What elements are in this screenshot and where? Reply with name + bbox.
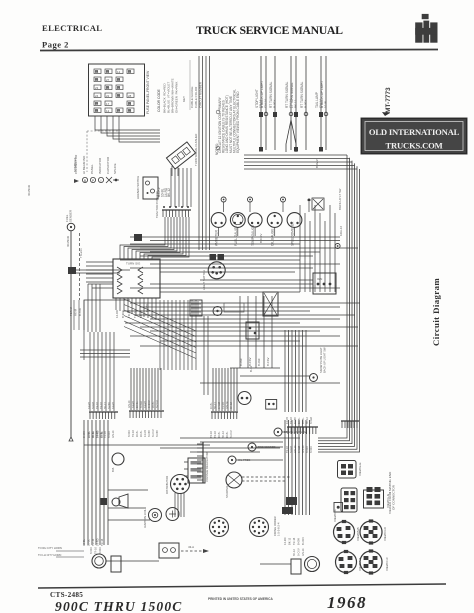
svg-text:43-A: 43-A xyxy=(188,545,194,549)
svg-text:IGNITION COIL: IGNITION COIL xyxy=(143,509,147,528)
svg-text:B-WIZ: B-WIZ xyxy=(218,401,221,409)
svg-text:16-BL: 16-BL xyxy=(152,401,155,408)
svg-text:TURN SIGNAL FLASHER: TURN SIGNAL FLASHER xyxy=(194,134,198,166)
svg-text:KEY: KEY xyxy=(182,96,186,102)
svg-text:14-RD: 14-RD xyxy=(132,401,135,408)
svg-text:BK-12: BK-12 xyxy=(222,430,225,438)
svg-text:17: 17 xyxy=(117,109,121,113)
svg-text:VIEW F-F: VIEW F-F xyxy=(333,509,337,522)
svg-text:10-BL: 10-BL xyxy=(136,401,139,408)
svg-text:18: 18 xyxy=(95,70,99,74)
svg-text:FUEL GAUGE: FUEL GAUGE xyxy=(234,226,238,246)
svg-text:1-5-3-6-2-4: 1-5-3-6-2-4 xyxy=(277,522,281,536)
svg-text:Circuit Diagram: Circuit Diagram xyxy=(431,278,441,346)
svg-text:COLOR CODE: COLOR CODE xyxy=(157,88,161,112)
svg-text:VIEW A-A: VIEW A-A xyxy=(358,558,362,571)
svg-text:30-BRD: 30-BRD xyxy=(27,184,31,196)
svg-text:B-099: B-099 xyxy=(148,430,151,437)
svg-text:BK-12: BK-12 xyxy=(104,401,107,409)
svg-text:TR-16: TR-16 xyxy=(290,416,293,424)
svg-text:TR-16: TR-16 xyxy=(91,538,95,546)
svg-text:16-BL: 16-BL xyxy=(82,539,86,546)
svg-text:18: 18 xyxy=(95,109,99,113)
svg-text:TR-16: TR-16 xyxy=(132,429,135,437)
svg-text:TR-16: TR-16 xyxy=(100,538,104,546)
svg-text:B-CKV: B-CKV xyxy=(152,429,155,437)
svg-text:22: 22 xyxy=(106,94,110,98)
svg-text:OF CONNECTOR: OF CONNECTOR xyxy=(392,484,396,510)
svg-text:BACK-UP LIGHT SW: BACK-UP LIGHT SW xyxy=(323,347,327,373)
svg-text:BK-12: BK-12 xyxy=(167,188,171,197)
svg-text:STARTER: STARTER xyxy=(225,486,229,498)
svg-text:VIEW B-B: VIEW B-B xyxy=(356,527,360,541)
svg-text:OLD INTERNATIONAL: OLD INTERNATIONAL xyxy=(369,127,460,137)
svg-text:BK-12: BK-12 xyxy=(306,416,309,424)
svg-text:HI BEAM IND: HI BEAM IND xyxy=(82,155,86,174)
svg-text:12: 12 xyxy=(106,109,110,113)
svg-text:BK-12: BK-12 xyxy=(293,548,296,556)
svg-text:DISTRIBUTOR: DISTRIBUTOR xyxy=(165,476,169,494)
svg-text:10-BL: 10-BL xyxy=(87,539,91,546)
svg-text:B-099: B-099 xyxy=(297,538,301,545)
svg-text:PANEL: PANEL xyxy=(90,164,94,174)
svg-text:B-WIZ: B-WIZ xyxy=(140,400,143,408)
svg-text:10-BL: 10-BL xyxy=(298,417,301,424)
svg-text:12: 12 xyxy=(117,70,121,74)
svg-text:SPLICE: SPLICE xyxy=(113,163,117,174)
svg-text:900C THRU 1500C: 900C THRU 1500C xyxy=(55,599,183,613)
svg-text:B-90X: B-90X xyxy=(121,310,125,318)
svg-text:B-CKV: B-CKV xyxy=(259,233,263,243)
svg-text:14-RD: 14-RD xyxy=(112,402,115,409)
svg-text:FIRING ORDER: FIRING ORDER xyxy=(273,516,277,536)
svg-text:EQUIPMENT VIEWED FROM CABLE EN: EQUIPMENT VIEWED FROM CABLE END xyxy=(236,91,240,153)
svg-text:16-BL: 16-BL xyxy=(218,431,221,438)
svg-text:GN-14: GN-14 xyxy=(226,401,229,409)
svg-text:B-WIZ: B-WIZ xyxy=(310,416,313,424)
svg-text:B-CKV: B-CKV xyxy=(230,430,233,438)
svg-text:B-12: B-12 xyxy=(249,366,253,372)
svg-text:CONNECTOR: CONNECTOR xyxy=(74,154,78,174)
svg-text:B-WIZ: B-WIZ xyxy=(298,445,301,453)
svg-text:28: 28 xyxy=(128,94,132,98)
svg-text:SPEEDOMETER: SPEEDOMETER xyxy=(291,221,295,246)
svg-text:CTS-2485: CTS-2485 xyxy=(50,591,83,599)
svg-text:14-RD: 14-RD xyxy=(283,537,287,545)
svg-text:FUSE PANEL-FRONT VIEW: FUSE PANEL-FRONT VIEW xyxy=(146,70,150,114)
svg-text:B-CKV: B-CKV xyxy=(301,537,305,545)
svg-text:MT-7773: MT-7773 xyxy=(385,87,392,113)
svg-text:CAPACITOR: CAPACITOR xyxy=(106,156,110,174)
svg-text:B-90X: B-90X xyxy=(304,100,308,108)
svg-text:21: 21 xyxy=(117,86,121,90)
svg-text:BACK-UP LT SW: BACK-UP LT SW xyxy=(338,188,342,210)
svg-text:14-RD: 14-RD xyxy=(144,430,147,437)
svg-text:23: 23 xyxy=(95,86,99,90)
svg-text:17: 17 xyxy=(95,102,99,106)
svg-text:B-WIZ: B-WIZ xyxy=(290,445,293,453)
svg-text:30-BRD: 30-BRD xyxy=(66,235,70,247)
svg-text:24: 24 xyxy=(95,94,99,98)
svg-text:TURN SIG: TURN SIG xyxy=(126,262,141,266)
svg-text:INDICATOR: INDICATOR xyxy=(98,157,102,174)
svg-text:B-90X: B-90X xyxy=(108,431,111,438)
svg-text:14-RD: 14-RD xyxy=(88,402,91,409)
svg-text:BK-12: BK-12 xyxy=(214,401,217,409)
svg-text:I: I xyxy=(101,179,102,183)
svg-text:1968: 1968 xyxy=(327,593,367,612)
svg-text:B-099: B-099 xyxy=(108,402,111,409)
svg-text:16-BL: 16-BL xyxy=(91,431,95,438)
svg-text:10-BL: 10-BL xyxy=(210,402,213,409)
svg-text:TR-16: TR-16 xyxy=(222,401,225,409)
svg-text:B-099: B-099 xyxy=(257,358,261,366)
svg-text:B-099: B-099 xyxy=(82,431,86,438)
svg-text:TR-16: TR-16 xyxy=(210,430,213,438)
svg-text:30: 30 xyxy=(128,109,132,113)
svg-text:BK-12: BK-12 xyxy=(294,99,298,108)
svg-text:10-BL: 10-BL xyxy=(324,100,328,108)
svg-text:16-BL: 16-BL xyxy=(136,430,139,437)
svg-text:16-BL: 16-BL xyxy=(87,431,91,438)
svg-text:B-90X: B-90X xyxy=(90,547,93,554)
svg-text:B.B.: B.B. xyxy=(111,467,115,472)
svg-text:KDA-16: KDA-16 xyxy=(339,225,343,236)
svg-text:B-90X: B-90X xyxy=(306,446,309,453)
svg-text:Page 2: Page 2 xyxy=(42,40,69,50)
svg-text:10-BL: 10-BL xyxy=(100,431,104,438)
svg-text:20: 20 xyxy=(106,86,110,90)
svg-text:13: 13 xyxy=(106,70,110,74)
svg-text:18: 18 xyxy=(117,78,121,82)
svg-text:TRUCKS.COM: TRUCKS.COM xyxy=(386,141,443,151)
svg-text:AMMETER: AMMETER xyxy=(215,229,219,246)
svg-text:TO LH CITY HORN: TO LH CITY HORN xyxy=(38,553,61,557)
svg-text:TDR-M: TDR-M xyxy=(69,306,73,316)
svg-text:16-BL: 16-BL xyxy=(140,430,143,437)
svg-text:BK-12: BK-12 xyxy=(288,537,292,545)
svg-text:B-WIZ: B-WIZ xyxy=(92,401,95,409)
svg-text:VIEW D-D: VIEW D-D xyxy=(383,526,387,541)
svg-text:TR-16: TR-16 xyxy=(96,401,99,409)
svg-text:B-CKV: B-CKV xyxy=(298,548,301,556)
svg-text:VOLTAGE REGULATOR: VOLTAGE REGULATOR xyxy=(205,452,209,482)
svg-text:GN-14: GN-14 xyxy=(112,430,115,438)
svg-text:TR-16: TR-16 xyxy=(104,430,107,438)
svg-text:B-70A: B-70A xyxy=(78,308,82,316)
svg-text:14-RD: 14-RD xyxy=(96,430,100,438)
svg-text:14-RD: 14-RD xyxy=(144,401,147,408)
svg-text:TR-16: TR-16 xyxy=(292,537,296,545)
svg-text:VIEW C-C: VIEW C-C xyxy=(385,556,389,571)
svg-text:12: 12 xyxy=(128,70,132,74)
svg-text:TR-16: TR-16 xyxy=(95,546,98,554)
svg-text:B-90X: B-90X xyxy=(99,547,102,554)
svg-text:B-CKV: B-CKV xyxy=(156,400,159,408)
svg-text:GN-14: GN-14 xyxy=(302,548,305,556)
svg-text:B-90X: B-90X xyxy=(128,430,131,437)
svg-text:TR-16: TR-16 xyxy=(100,401,103,409)
svg-text:VIEW E-E: VIEW E-E xyxy=(358,462,362,476)
svg-text:TRUCK SERVICE MANUAL: TRUCK SERVICE MANUAL xyxy=(196,23,343,37)
svg-text:B-099: B-099 xyxy=(156,430,159,437)
svg-text:10: 10 xyxy=(95,78,99,82)
svg-text:14-RD: 14-RD xyxy=(115,310,119,318)
svg-text:21: 21 xyxy=(128,102,132,106)
svg-text:TEMP GAUGE: TEMP GAUGE xyxy=(251,225,255,246)
svg-text:16-BL: 16-BL xyxy=(226,431,229,438)
svg-text:B-CKV: B-CKV xyxy=(266,357,270,366)
svg-text:TN-alim: TN-alim xyxy=(79,248,83,258)
svg-text:B-90X: B-90X xyxy=(310,446,313,453)
svg-text:SENDER: SENDER xyxy=(69,210,73,222)
svg-text:GN-14: GN-14 xyxy=(264,99,268,108)
svg-text:B-90X: B-90X xyxy=(273,100,277,108)
svg-text:TRACTOR POSITION: TRACTOR POSITION xyxy=(155,191,159,218)
svg-text:17: 17 xyxy=(106,102,110,106)
svg-text:HAZARD SWITCH: HAZARD SWITCH xyxy=(136,176,140,199)
svg-text:SNOW PLOW LIGHT: SNOW PLOW LIGHT xyxy=(319,347,323,373)
svg-text:14-RD: 14-RD xyxy=(96,538,100,546)
svg-text:ELECTRICAL: ELECTRICAL xyxy=(42,23,102,33)
svg-text:BK-12: BK-12 xyxy=(230,401,233,409)
svg-text:B-CKV: B-CKV xyxy=(148,400,151,408)
svg-text:PRINTED IN UNITED STATES OF AM: PRINTED IN UNITED STATES OF AMERICA xyxy=(208,597,273,601)
svg-text:B-WIZ: B-WIZ xyxy=(315,159,319,168)
svg-text:B-CKV: B-CKV xyxy=(248,357,252,366)
svg-text:30: 30 xyxy=(117,94,121,98)
svg-text:TO RH CITY HORN: TO RH CITY HORN xyxy=(38,546,62,550)
svg-text:TR-16: TR-16 xyxy=(214,430,217,438)
svg-text:GN-14: GN-14 xyxy=(128,400,131,408)
svg-text:GN=GREEN PK=PINK: GN=GREEN PK=PINK xyxy=(175,82,179,113)
svg-text:B-099: B-099 xyxy=(239,358,243,366)
svg-text:27: 27 xyxy=(106,78,110,82)
